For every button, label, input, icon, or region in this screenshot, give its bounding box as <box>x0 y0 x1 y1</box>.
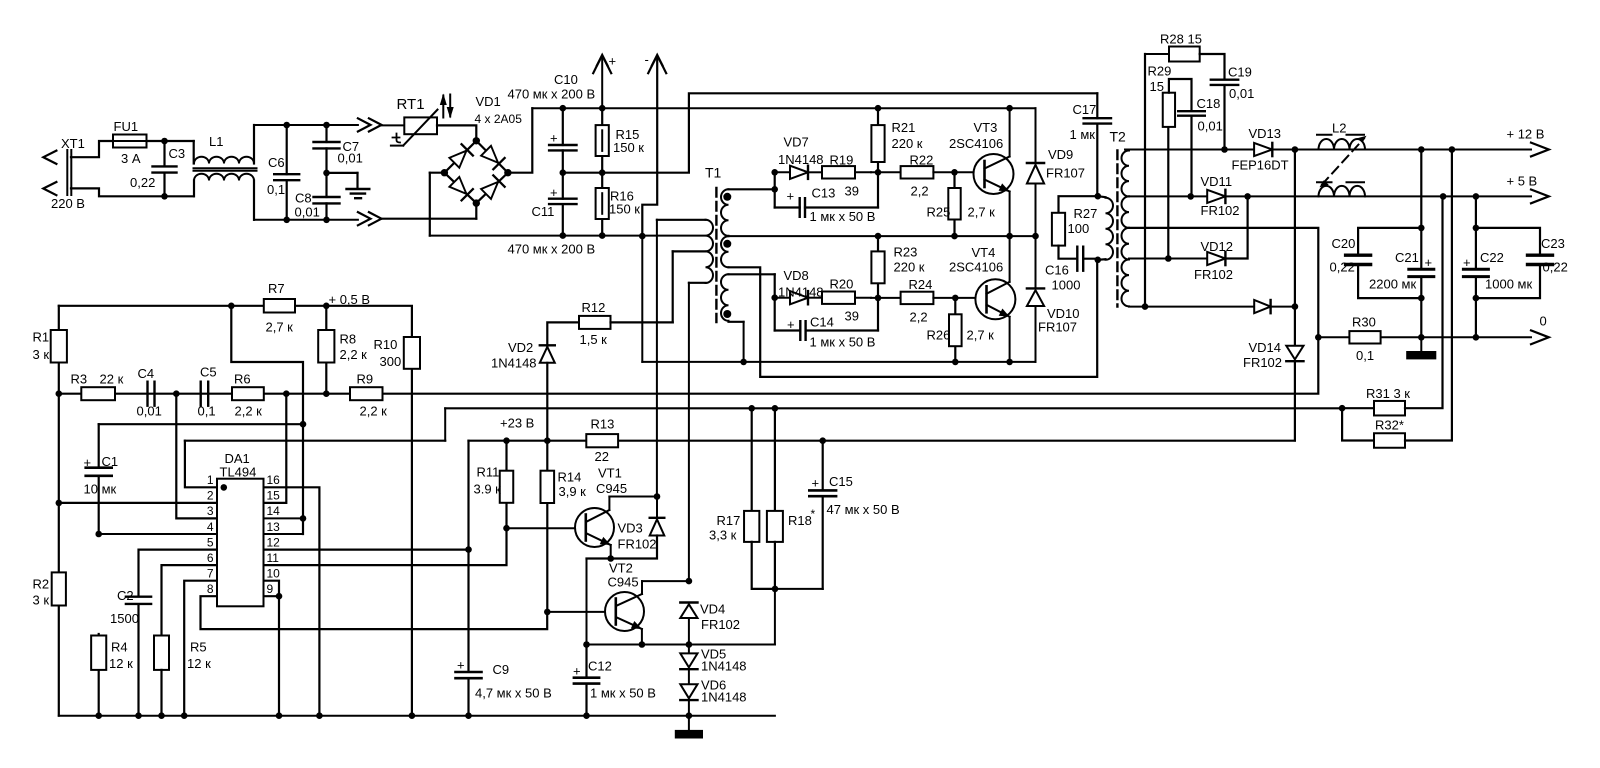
wire +310V top rail <box>532 107 1035 109</box>
diode VD9 <box>1027 108 1044 236</box>
svg-text:12: 12 <box>267 535 281 549</box>
svg-text:3 к: 3 к <box>33 593 50 608</box>
svg-text:12 к: 12 к <box>109 656 133 671</box>
svg-text:R11: R11 <box>477 465 500 480</box>
svg-text:VD14: VD14 <box>1249 340 1282 355</box>
capacitor C1 <box>86 424 112 534</box>
junction VD4/VD5 <box>686 641 693 648</box>
diode FEP16DT lower half <box>1254 300 1295 313</box>
svg-text:0,1: 0,1 <box>198 404 216 419</box>
resistor R6 <box>232 387 264 400</box>
svg-text:VD3: VD3 <box>618 521 643 536</box>
svg-text:XT1: XT1 <box>61 136 85 151</box>
svg-text:VD7: VD7 <box>784 135 809 150</box>
svg-text:0,22: 0,22 <box>1543 260 1568 275</box>
svg-text:4 х 2А05: 4 х 2А05 <box>475 112 523 126</box>
resistor R31 <box>1342 196 1442 415</box>
capacitor C20 <box>1346 228 1422 298</box>
svg-text:R31 3 к: R31 3 к <box>1366 386 1410 401</box>
capacitor C2 <box>126 597 151 716</box>
junction R28 drop <box>1142 303 1149 310</box>
junction R6 right <box>283 390 290 397</box>
junction +5/C22 <box>1473 193 1480 200</box>
junction R10 ground <box>409 712 416 719</box>
capacitor C8 <box>314 173 340 220</box>
wire emitter line <box>587 644 775 646</box>
svg-text:+ 0,5 В: + 0,5 В <box>329 292 371 307</box>
svg-text:+: + <box>457 658 465 673</box>
junction R5 bottom <box>158 712 165 719</box>
junction bridge top corner <box>473 137 480 144</box>
junction VT2 emitter <box>639 641 646 648</box>
svg-text:+: + <box>812 476 820 491</box>
svg-text:1000 мк: 1000 мк <box>1485 277 1532 292</box>
transformer T1 winding W3 <box>721 274 775 322</box>
resistor R28 <box>1145 47 1225 307</box>
svg-text:0,01: 0,01 <box>1229 86 1254 101</box>
svg-text:C20: C20 <box>1332 236 1356 251</box>
svg-text:C22: C22 <box>1480 250 1504 265</box>
wire VT2 base <box>547 611 616 613</box>
junction VT3 base node <box>951 169 958 176</box>
diode VD8 <box>775 291 822 304</box>
wire pin13 stub <box>264 533 304 535</box>
wire pin16 line <box>264 487 320 715</box>
phase dot W2 <box>723 240 731 248</box>
svg-text:FR107: FR107 <box>1046 166 1085 181</box>
capacitor C7 <box>314 125 340 173</box>
junction C12 bottom <box>583 712 590 719</box>
svg-text:R10: R10 <box>374 337 398 352</box>
transformer T1 core <box>715 188 717 322</box>
svg-text:C12: C12 <box>588 659 612 674</box>
wire VT1 collector to VD3 <box>609 496 657 498</box>
resistor R7 <box>264 299 295 313</box>
svg-text:2,2 к: 2,2 к <box>340 347 368 362</box>
resistor R18 <box>767 408 783 589</box>
svg-text:22: 22 <box>595 449 609 464</box>
svg-text:R19: R19 <box>830 153 854 168</box>
resistor R13 <box>586 434 618 447</box>
resistor R19 <box>822 166 871 178</box>
junction R15 bottom <box>599 169 606 176</box>
diode VD14 <box>1286 150 1303 441</box>
inductor L1 core <box>194 168 257 171</box>
junction bridge right corner <box>504 169 511 176</box>
capacitor C6 <box>274 125 299 220</box>
temp arrows at RT1 <box>440 94 454 119</box>
svg-text:C23: C23 <box>1541 236 1565 251</box>
junction C9 bottom <box>465 712 472 719</box>
wire bottom filter rail <box>254 219 358 221</box>
svg-text:C1: C1 <box>102 454 119 469</box>
svg-text:47 мк х 50 В: 47 мк х 50 В <box>827 502 900 517</box>
capacitor C18 <box>1178 111 1205 196</box>
capacitor C4 <box>148 382 155 406</box>
capacitor C15 <box>809 441 836 589</box>
svg-text:1 мк х 50 В: 1 мк х 50 В <box>810 209 876 224</box>
resistor R17 <box>744 408 775 589</box>
svg-text:15: 15 <box>1150 79 1164 94</box>
wire midpoint rail <box>563 93 1098 172</box>
svg-text:R14: R14 <box>558 470 582 485</box>
junction C23 top <box>1473 225 1480 232</box>
svg-text:3 А: 3 А <box>121 151 141 166</box>
svg-text:C13: C13 <box>812 186 836 201</box>
svg-text:1500: 1500 <box>110 611 139 626</box>
wire primary minus rail <box>430 235 705 237</box>
junction 0/C22 <box>1473 334 1480 341</box>
wire C4-C5 to pin3 <box>176 394 217 519</box>
diode VD1-c (left-bottom edge) <box>449 177 472 201</box>
svg-text:R1: R1 <box>33 330 50 345</box>
junction R4 bottom <box>95 712 102 719</box>
junction C1 bottom / pin4 <box>95 531 102 538</box>
junction bridge left corner <box>441 169 448 176</box>
junction C18 bottom <box>1187 193 1194 200</box>
svg-text:C15: C15 <box>829 474 853 489</box>
diode VD6 <box>680 684 697 715</box>
wire feedback rail <box>59 337 1319 393</box>
junction C15 top <box>819 437 826 444</box>
wire +12 rail <box>1125 149 1531 151</box>
svg-text:VD11: VD11 <box>1201 174 1233 189</box>
svg-text:15: 15 <box>267 489 281 503</box>
svg-text:4: 4 <box>207 520 214 534</box>
transformer T1 winding W1 <box>721 189 775 236</box>
transistor VT1 <box>575 497 614 559</box>
junction pins9-10 ground <box>276 712 283 719</box>
svg-text:C3: C3 <box>169 146 186 161</box>
junction C23 bottom <box>1473 295 1480 302</box>
svg-text:0,01: 0,01 <box>1198 119 1223 134</box>
junction R1 bottom <box>56 390 63 397</box>
svg-text:1N4148: 1N4148 <box>701 659 747 674</box>
phase dot W1 <box>723 193 731 201</box>
svg-text:R4: R4 <box>111 640 128 655</box>
wire VT1 emitter to C12 <box>586 559 588 645</box>
svg-text:R28 15: R28 15 <box>1160 32 1202 47</box>
svg-text:C17: C17 <box>1073 102 1097 117</box>
junction pin12/C9 <box>465 546 472 553</box>
svg-text:1,5 к: 1,5 к <box>580 332 608 347</box>
transistor VT4 <box>955 236 1015 362</box>
svg-text:*: * <box>811 507 816 521</box>
resistor R20 <box>822 292 871 304</box>
junction VD11 cathode <box>1244 193 1251 200</box>
svg-text:1 мк х 50 В: 1 мк х 50 В <box>810 335 876 350</box>
svg-text:0,01: 0,01 <box>338 151 363 166</box>
diode VD5 <box>680 645 697 685</box>
wire top filter rail <box>254 124 358 126</box>
svg-text:R21: R21 <box>892 120 916 135</box>
svg-text:11: 11 <box>267 551 280 565</box>
svg-text:0,22: 0,22 <box>1330 260 1355 275</box>
svg-text:+ 12 В: + 12 В <box>1507 127 1545 142</box>
capacitor C9 <box>456 441 482 716</box>
svg-text:VD9: VD9 <box>1048 147 1073 162</box>
svg-text:R18: R18 <box>788 513 812 528</box>
junction R17/R18/C15 <box>772 586 779 593</box>
svg-text:220 В: 220 В <box>51 196 85 211</box>
phase dot W3 <box>723 310 731 318</box>
capacitor C11 <box>549 173 576 236</box>
junction C7 top <box>323 122 330 129</box>
svg-text:1N4148: 1N4148 <box>701 690 747 705</box>
junction VD9 bottom <box>1032 233 1039 240</box>
junction 0-rail left <box>1315 334 1322 341</box>
wire VT4 emitter rail <box>642 361 1035 363</box>
junction VT1 collector/VD3 <box>654 493 661 500</box>
svg-text:C6: C6 <box>268 155 285 170</box>
svg-text:R5: R5 <box>190 640 207 655</box>
svg-text:10: 10 <box>267 566 281 580</box>
junction main ground <box>686 712 693 719</box>
resistor R25 <box>948 172 960 236</box>
svg-text:0,01: 0,01 <box>295 205 320 220</box>
wire +0.5V top wire <box>59 306 412 337</box>
junction R8 bottom <box>323 390 330 397</box>
diode VD2 <box>540 322 579 440</box>
resistor R9 <box>350 387 383 400</box>
svg-text:0,01: 0,01 <box>137 404 162 419</box>
wire C15 to R17/R18 <box>775 588 823 590</box>
rectifier VD1 diamond <box>444 141 508 203</box>
svg-text:C945: C945 <box>596 481 627 496</box>
junction pin7 ground <box>181 712 188 719</box>
resistor R24 <box>871 292 955 304</box>
svg-text:+ 5 В: + 5 В <box>1507 174 1538 189</box>
wire VD7 anode column <box>775 172 800 207</box>
wire pin5 to C2 <box>139 550 218 597</box>
svg-text:1N4148: 1N4148 <box>491 356 537 371</box>
junction +12/C21 <box>1418 146 1425 153</box>
arrow through L2 <box>1320 136 1367 187</box>
svg-text:6: 6 <box>207 551 214 565</box>
inductor L2 bottom <box>1317 182 1365 196</box>
junction R25 bottom <box>951 233 958 240</box>
junction R11/+23V <box>503 437 510 444</box>
resistor R29 <box>1163 79 1192 259</box>
resistor R21 <box>871 108 884 172</box>
resistor R30 <box>1349 331 1380 343</box>
wire minus drop to emitter rail <box>641 236 643 362</box>
junction W3/R12 <box>740 359 747 366</box>
wire R18 to emitter line <box>774 589 776 645</box>
ground at C7-C8 <box>327 173 370 198</box>
svg-text:3.9 к: 3.9 к <box>474 482 502 497</box>
junction C10 top <box>560 105 567 112</box>
wire RT1 to bridge <box>437 125 476 139</box>
junction R1/R2 tap <box>56 500 63 507</box>
wire T2 bottom lead <box>1129 306 1254 308</box>
svg-text:R30: R30 <box>1352 315 1376 330</box>
svg-text:+: + <box>573 664 581 679</box>
minus output arrow <box>642 55 666 236</box>
junction T2 primary top <box>1095 193 1102 200</box>
capacitor C10 <box>549 108 576 173</box>
svg-text:14: 14 <box>267 504 281 518</box>
svg-text:2200 мк: 2200 мк <box>1369 277 1416 292</box>
svg-text:VT3: VT3 <box>974 120 998 135</box>
svg-text:C11: C11 <box>532 204 555 219</box>
resistor R22 <box>871 166 955 178</box>
svg-text:2SC4106: 2SC4106 <box>949 260 1003 275</box>
svg-text:FR102: FR102 <box>1243 355 1282 370</box>
diode VD3 <box>587 497 665 559</box>
svg-text:R8: R8 <box>340 332 357 347</box>
svg-text:0,1: 0,1 <box>1356 348 1374 363</box>
junction C7-C8 midpoint <box>323 170 330 177</box>
wire divider rail drop <box>444 408 446 440</box>
svg-text:R27: R27 <box>1074 206 1098 221</box>
svg-text:VD12: VD12 <box>1201 239 1234 254</box>
svg-text:C9: C9 <box>493 662 510 677</box>
svg-text:470 мк х 200 В: 470 мк х 200 В <box>508 242 596 257</box>
diode VD1-b (top-right edge) <box>481 146 505 169</box>
junction R23 top <box>875 233 882 240</box>
svg-text:2SC4106: 2SC4106 <box>949 136 1003 151</box>
resistor R15 <box>596 108 609 173</box>
wire pin1 feedback line <box>185 440 445 442</box>
svg-text:9: 9 <box>267 582 274 596</box>
junction C11 bottom <box>560 232 567 239</box>
capacitor C13 <box>800 172 878 217</box>
junction pin14 <box>300 515 307 522</box>
svg-text:2,2: 2,2 <box>911 184 929 199</box>
junction VT4 base node <box>952 295 959 302</box>
svg-text:FR102: FR102 <box>618 537 657 552</box>
svg-text:1N4148: 1N4148 <box>778 285 824 300</box>
ground chassis symbol <box>676 716 702 738</box>
junction VD2/R14/+23V <box>544 437 551 444</box>
capacitor C12 <box>574 645 599 716</box>
capacitor C3 <box>153 141 177 196</box>
svg-text:C5: C5 <box>200 365 217 380</box>
wire W1-W2 tap to emitter rail <box>729 235 1036 237</box>
break arrows bottom <box>358 212 382 225</box>
svg-text:R22: R22 <box>910 153 934 168</box>
svg-text:R6: R6 <box>234 372 251 387</box>
svg-text:2,7 к: 2,7 к <box>266 320 294 335</box>
wire pin12 line <box>264 548 469 550</box>
diode VD12 <box>1207 196 1247 265</box>
junction +12/R32 <box>1449 146 1456 153</box>
capacitor C22 <box>1463 196 1488 337</box>
wire VT2 collector <box>642 580 689 582</box>
svg-text:16: 16 <box>267 473 281 487</box>
wire R7 to pins 13-14 column <box>231 306 303 534</box>
diode VD1-a (left-top edge) <box>449 144 472 167</box>
wire bridge plus riser <box>508 108 532 173</box>
junction VT2 collector <box>686 578 693 585</box>
junction +5/R31 <box>1440 193 1447 200</box>
transformer T1 winding W2 <box>721 236 728 267</box>
junction R19/R21/R22 <box>875 169 882 176</box>
svg-text:C10: C10 <box>554 72 578 87</box>
junction pin9 <box>276 593 283 600</box>
svg-text:+23 В: +23 В <box>500 416 534 431</box>
transistor VT3 <box>955 108 1014 236</box>
svg-text:1: 1 <box>207 473 214 487</box>
svg-text:+: + <box>550 185 558 200</box>
junction R31/R32 <box>1339 405 1346 412</box>
svg-text:12 к: 12 к <box>187 656 211 671</box>
svg-text:220 к: 220 к <box>892 136 923 151</box>
svg-text:FR102: FR102 <box>1194 267 1233 282</box>
svg-text:220 к: 220 к <box>894 260 925 275</box>
svg-text:FR102: FR102 <box>1201 203 1240 218</box>
svg-text:2,7 к: 2,7 к <box>967 328 995 343</box>
wire bridge minus <box>382 173 477 236</box>
resistor R32 <box>1342 150 1452 448</box>
junction R18 top <box>772 405 779 412</box>
svg-text:C21: C21 <box>1395 250 1419 265</box>
junction VT3 emitter <box>1006 233 1013 240</box>
wire pin11 line <box>264 528 507 565</box>
svg-text:C945: C945 <box>608 575 639 590</box>
wire pin1 line <box>185 441 217 488</box>
diode VD1-d (bottom-right edge) <box>481 175 505 199</box>
junction C3 top <box>161 138 168 145</box>
junction C6 top <box>283 122 290 129</box>
wire C1 top line <box>99 423 303 425</box>
svg-text:VD1: VD1 <box>476 94 501 109</box>
fuse FU1 <box>113 135 165 148</box>
svg-text:1 мк х 50 В: 1 мк х 50 В <box>590 686 656 701</box>
svg-text:C14: C14 <box>810 315 834 330</box>
junction C3 bottom <box>161 193 168 200</box>
svg-text:T1: T1 <box>705 165 722 181</box>
junction bridge bottom corner <box>473 199 480 206</box>
resistor R5 <box>154 636 169 716</box>
svg-text:1 мк: 1 мк <box>1070 127 1096 142</box>
junction VT3 collector <box>1006 105 1013 112</box>
svg-text:VT1: VT1 <box>598 466 622 481</box>
transformer T2 core <box>1116 151 1118 307</box>
arrow +12 output <box>1531 143 1549 157</box>
svg-text:+: + <box>1425 255 1433 270</box>
svg-text:RT1: RT1 <box>397 96 425 113</box>
svg-text:13: 13 <box>267 520 281 534</box>
wire pin4 line <box>99 533 217 535</box>
wire FU1 to C3 to L1 <box>165 141 194 164</box>
svg-text:T2: T2 <box>1110 129 1127 145</box>
svg-text:FR102: FR102 <box>701 617 740 632</box>
svg-text:C16: C16 <box>1045 263 1069 278</box>
svg-text:VD4: VD4 <box>700 602 725 617</box>
svg-text:VT2: VT2 <box>609 561 633 576</box>
wire arrow to RT1 <box>382 124 405 126</box>
inductor L1 top winding <box>194 125 254 164</box>
svg-text:2: 2 <box>207 489 214 503</box>
svg-text:R26: R26 <box>927 328 951 343</box>
svg-text:+: + <box>550 131 558 146</box>
svg-text:L2: L2 <box>1332 121 1346 136</box>
resistor R8 <box>318 306 334 394</box>
svg-text:1000: 1000 <box>1052 278 1081 293</box>
capacitor C19 <box>1211 80 1238 150</box>
wire pin6 to R5 <box>162 565 218 635</box>
junction pin16 ground <box>316 712 323 719</box>
resistor R1 <box>51 306 67 394</box>
wire pin15 to R6 <box>264 394 287 503</box>
svg-text:FEP16DT: FEP16DT <box>1232 158 1289 173</box>
junction VD12 anode <box>1165 255 1172 262</box>
wire pin14 stub <box>264 517 304 519</box>
svg-text:2,2 к: 2,2 к <box>360 404 388 419</box>
wire pin8 to VT2 base <box>201 596 548 629</box>
